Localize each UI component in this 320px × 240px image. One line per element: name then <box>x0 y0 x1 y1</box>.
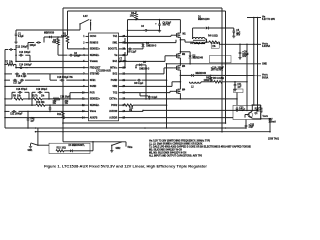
capacitor C7 1uF <box>118 52 126 68</box>
switch S2 5V run <box>28 143 39 152</box>
wire gnd stack vert <box>166 64 168 129</box>
svg-text:100pF: 100pF <box>24 52 31 54</box>
wire BG2 to M3 gate <box>122 68 174 74</box>
diode D3 MBRD340 <box>180 72 211 77</box>
svg-text:C16 0.01µF 5%: C16 0.01µF 5% <box>57 77 73 79</box>
node notes <box>149 137 280 157</box>
svg-text:VOUT2: VOUT2 <box>262 44 268 46</box>
svg-text:T1: DALE LPE-6562-A262 GAPPED: T1: DALE LPE-6562-A262 GAPPED E-CORE OR … <box>149 146 251 149</box>
svg-text:SENSE2+: SENSE2+ <box>90 99 101 101</box>
capacitor C18 470pF <box>12 88 29 99</box>
svg-text:0.1µF: 0.1µF <box>18 36 24 38</box>
wire sense1 line <box>14 50 86 63</box>
wire 12V right bus <box>257 18 259 111</box>
svg-text:VIN: VIN <box>114 55 117 57</box>
wire aux return <box>62 122 226 124</box>
svg-text:C18 20pF: C18 20pF <box>60 96 71 98</box>
wire VIN feed <box>122 19 181 55</box>
capacitor C2b 100pF <box>28 41 41 49</box>
svg-text:MBR0530: MBR0530 <box>44 33 55 35</box>
svg-text:SW1: SW1 <box>112 42 118 44</box>
diode D7 MBR0530 <box>44 33 64 43</box>
wire 12V feed bus <box>143 110 258 112</box>
svg-text:100pF: 100pF <box>74 56 81 58</box>
switch S1 output select <box>16 16 92 31</box>
wire s2 to box <box>38 144 49 146</box>
resistor R16 10k 1% <box>53 98 61 105</box>
svg-text:MBRD340: MBRD340 <box>193 57 204 60</box>
svg-text:ALL INPUT AND OUTPUT CAPACITOR: ALL INPUT AND OUTPUT CAPACITORS: AVX TPS <box>149 155 203 158</box>
svg-text:SGND: SGND <box>90 86 97 88</box>
svg-text:SENSE1-: SENSE1- <box>90 55 100 57</box>
resistor R12 1M <box>122 104 168 112</box>
svg-text:5V/3A: 5V/3A <box>262 76 269 79</box>
svg-text:C6 0.1µF: C6 0.1µF <box>127 51 137 53</box>
capacitor C9 COUT1 <box>238 44 249 59</box>
resistor R10 20k <box>5 102 86 106</box>
wire M3 drain gnd <box>179 63 181 66</box>
node VOUT1 5V <box>210 75 269 80</box>
wire SGND stub <box>4 86 85 88</box>
wire vout1 bus <box>246 44 248 111</box>
svg-text:100pF: 100pF <box>30 45 37 47</box>
capacitor C3 0.1uF <box>127 26 161 31</box>
wire bottom feed <box>37 128 39 145</box>
resistor R8 10k 1% <box>4 96 30 100</box>
svg-text:POR: POR <box>90 92 95 94</box>
wire VPROG2 stub <box>69 93 85 100</box>
svg-text:100Ω: 100Ω <box>203 80 209 82</box>
svg-text:CMDSH-3: CMDSH-3 <box>146 45 157 47</box>
resistor R4 0.02 sense1 <box>206 35 220 45</box>
svg-text:1%: 1% <box>53 103 56 105</box>
svg-text:16V: 16V <box>242 56 247 58</box>
transistor M2 <box>174 53 186 60</box>
svg-text:BG2: BG2 <box>113 74 118 76</box>
svg-text:1538 TA01: 1538 TA01 <box>268 137 280 140</box>
resistor R5 0.015 sense2 <box>201 78 248 83</box>
svg-text:GND: GND <box>262 64 267 66</box>
svg-text:3.3V/5A: 3.3V/5A <box>262 45 271 48</box>
capacitor C10 COUT2 box <box>210 56 232 72</box>
transistor Q1 <box>245 104 258 118</box>
transistor M4 <box>174 88 186 95</box>
diode D1 MBRS1100 <box>193 16 234 29</box>
resistor R1 100k <box>61 33 86 49</box>
resistor R13 1k <box>253 104 262 119</box>
wire top rail inner <box>68 11 226 124</box>
svg-text:MBRS1100: MBRS1100 <box>198 19 210 21</box>
svg-text:SFB1: SFB1 <box>90 80 97 82</box>
svg-text:C21 1000pF: C21 1000pF <box>10 114 23 116</box>
capacitor C23 0.1uF <box>236 106 246 112</box>
svg-text:R5 0.015Ω: R5 0.015Ω <box>213 78 224 80</box>
svg-text:STBYMD: STBYMD <box>90 74 100 76</box>
svg-text:SENSE2-: SENSE2- <box>90 105 100 107</box>
capacitor C14 1000pF <box>15 64 85 69</box>
wire M4 source <box>122 95 238 100</box>
node T1 core <box>193 39 205 42</box>
svg-text:16V ×2 AVX: 16V ×2 AVX <box>211 69 224 72</box>
wire fb vert <box>62 98 69 110</box>
svg-text:BOOST1: BOOST1 <box>108 49 118 51</box>
svg-text:VOUT1: VOUT1 <box>262 75 268 77</box>
svg-text:22µF: 22µF <box>249 127 255 129</box>
svg-text:1000pF: 1000pF <box>24 65 32 67</box>
svg-text:1%: 1% <box>212 46 215 48</box>
svg-text:CMDSH-3: CMDSH-3 <box>139 68 150 70</box>
resistor R2 51k <box>52 37 59 55</box>
capacitor C8 0.1uF <box>122 65 168 99</box>
svg-text:R10 20k: R10 20k <box>36 102 45 104</box>
capacitor C11 1uF <box>233 82 242 92</box>
svg-text:AUXFB: AUXFB <box>90 116 98 119</box>
svg-text:Figure 1. LTC1538-AUX Fixed 5V: Figure 1. LTC1538-AUX Fixed 5V/3.3V and … <box>44 163 207 168</box>
svg-text:COSC: COSC <box>90 36 97 38</box>
svg-text:10Ω: 10Ω <box>62 147 67 149</box>
svg-text:D6 MBR0530TL: D6 MBR0530TL <box>69 145 86 147</box>
resistor R6 100 <box>203 77 211 83</box>
svg-text:VOSENSE1: VOSENSE1 <box>90 61 98 63</box>
capacitor C16 0.01uF <box>50 74 86 82</box>
capacitor C2 100pF <box>58 53 86 57</box>
wire TG2 to M4 gate <box>122 91 174 92</box>
node power gnd bus <box>166 63 268 66</box>
wire M4 drain <box>179 82 181 88</box>
wire box to line <box>88 141 94 151</box>
diode D2 MBRD340 <box>189 52 204 65</box>
capacitor C25 22uF <box>245 120 255 129</box>
wire 12V return <box>269 119 271 132</box>
svg-text:TG1: TG1 <box>113 36 118 38</box>
svg-text:VOUT3: VOUT3 <box>263 116 269 118</box>
svg-text:INTVCC: INTVCC <box>110 67 117 69</box>
svg-text:AUXDR: AUXDR <box>109 116 117 119</box>
svg-text:VPROG2: VPROG2 <box>90 111 97 113</box>
inductor T1 secondary <box>193 28 207 42</box>
inductor T1 primary <box>180 40 209 44</box>
svg-text:50V: 50V <box>236 35 241 37</box>
svg-text:35V ×2: 35V ×2 <box>163 24 171 27</box>
resistor R14 10 Ohm <box>49 143 90 153</box>
svg-text:M2, M3: SILICONIX Si4412DY N-C: M2, M3: SILICONIX Si4412DY N-CH <box>149 152 187 155</box>
svg-text:PGND: PGND <box>111 80 118 82</box>
svg-text:SW2: SW2 <box>112 86 118 88</box>
capacitor C4 22uF 35V x2 <box>155 20 172 33</box>
capacitor C17 1uF pair <box>4 79 40 85</box>
wire VIN right bus <box>253 18 255 106</box>
svg-text:EXTVCC: EXTVCC <box>109 99 117 101</box>
svg-text:35.7k: 35.7k <box>32 96 38 98</box>
svg-text:C18 470pF: C18 470pF <box>16 88 28 91</box>
svg-text:1%: 1% <box>41 96 44 98</box>
diode D4 CMDSH-3 <box>122 38 157 49</box>
node Q1 box <box>233 105 261 119</box>
resistor R3 10 Ohm <box>130 11 138 20</box>
wire TG1 to M1 gate <box>122 35 174 36</box>
svg-text:C19 100pF: C19 100pF <box>36 89 48 91</box>
svg-text:C9: 150µF 16V: C9: 150µF 16V <box>190 43 206 45</box>
node VIN input <box>247 16 275 21</box>
op-amp U1 LTC1538-AUX <box>82 33 126 121</box>
resistor R9 35.7k 1% <box>29 96 86 100</box>
resistor R11 16.9k <box>57 110 64 124</box>
capacitor C19 100pF <box>32 89 49 105</box>
svg-text:SW2: SW2 <box>116 148 122 150</box>
capacitor C22 1uF <box>27 111 36 128</box>
capacitor C13 100pF <box>15 52 31 62</box>
wire BG1 to M2 gate <box>122 56 174 62</box>
svg-text:FREQSET: FREQSET <box>90 67 101 69</box>
svg-text:5.2V TO 28V: 5.2V TO 28V <box>262 19 275 21</box>
capacitor C21 1000pF <box>4 110 85 116</box>
svg-text:C15 0.1µF: C15 0.1µF <box>16 76 27 78</box>
svg-text:SW1: SW1 <box>28 150 34 152</box>
capacitor C6 0.1uF <box>124 48 143 54</box>
capacitor C1 0.1uF <box>14 30 24 44</box>
svg-text:R4 0.02Ω: R4 0.02Ω <box>208 35 218 38</box>
node VOUT3 12V <box>252 116 276 123</box>
wire left gnd bus <box>5 127 246 129</box>
transistor M3 <box>174 65 186 72</box>
svg-text:SENSE1+: SENSE1+ <box>90 49 101 51</box>
svg-text:LTC1538-AUX: LTC1538-AUX <box>96 70 111 73</box>
svg-text:M1: SILICONIX Si4412DY N-CH: M1: SILICONIX Si4412DY N-CH <box>149 149 182 152</box>
node SW2 phase <box>122 71 182 86</box>
transistor M1 <box>174 32 187 39</box>
svg-text:0.1µF: 0.1µF <box>239 110 245 112</box>
svg-text:1µF: 1µF <box>237 86 242 88</box>
diode D5 CMDSH-3 <box>135 62 150 70</box>
capacitor C12 100pF <box>5 45 28 128</box>
node caption <box>44 163 207 168</box>
wire AUXDR long line <box>122 117 234 119</box>
wire bottom main line <box>62 131 133 149</box>
diode D6 MBR0530T <box>64 145 88 152</box>
svg-text:C17 1µF: C17 1µF <box>13 83 22 85</box>
wire top rail outer <box>63 8 222 132</box>
svg-text:L1, L2: 10µH SUMIDA CDRH125-10: L1, L2: 10µH SUMIDA CDRH125-100MC OR EQU… <box>149 143 203 146</box>
node VOUT2 3.3V <box>220 44 271 49</box>
svg-text:C8 0.1µF: C8 0.1µF <box>134 83 144 85</box>
switch S3 aux on <box>110 142 122 153</box>
capacitor C5 1uF 50V <box>232 28 241 38</box>
svg-text:VIN: 5.2V TO 28V (SWITCHING FR: VIN: 5.2V TO 28V (SWITCHING FREQUENCY: 2… <box>149 141 210 143</box>
svg-text:100pF: 100pF <box>21 47 28 49</box>
capacitor C20 20pF <box>49 96 71 112</box>
svg-text:POR2: POR2 <box>111 105 118 107</box>
wire M2 drain <box>180 40 191 53</box>
svg-text:1%: 1% <box>65 103 68 105</box>
svg-text:3.3V: 3.3V <box>83 16 88 18</box>
capacitor C24 small box <box>234 89 244 105</box>
capacitor C15 0.1uF pair <box>4 73 85 79</box>
svg-text:MBRD340: MBRD340 <box>196 72 207 75</box>
svg-text:AUXON: AUXON <box>109 110 118 113</box>
capacitor C26 0.1uF <box>140 93 158 100</box>
svg-text:TG2: TG2 <box>113 92 118 94</box>
svg-text:1µF: 1µF <box>30 120 35 122</box>
svg-text:0.1µF: 0.1µF <box>152 97 158 99</box>
wire AUXON jog <box>122 110 144 112</box>
wire gnd long bottom <box>35 131 271 133</box>
svg-text:10Ω: 10Ω <box>130 15 135 17</box>
resistor R7 10k <box>4 61 16 67</box>
svg-text:1µF: 1µF <box>118 61 123 63</box>
node SW1 phase <box>122 39 182 43</box>
wire M2 source gnd <box>180 59 182 65</box>
node C9 note <box>190 43 206 45</box>
wire AUXFB line <box>4 117 85 119</box>
node R4 label box <box>211 44 219 48</box>
inductor L2 10uH <box>189 82 201 89</box>
svg-text:RUN/SS: RUN/SS <box>90 42 99 44</box>
